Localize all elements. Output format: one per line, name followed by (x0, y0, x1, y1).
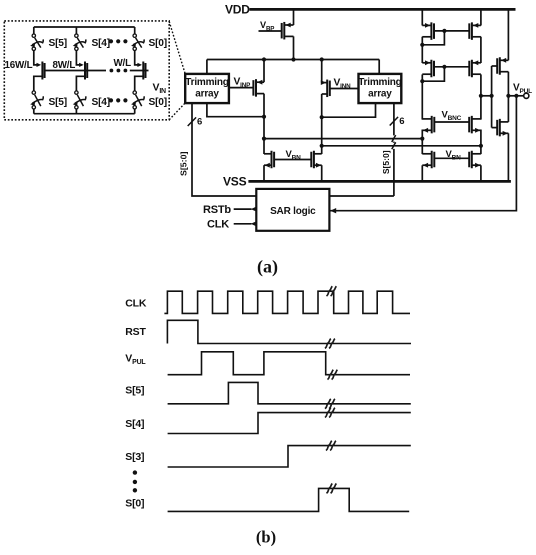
wire inset drain lead branch W/L (135, 76, 144, 90)
transistor inset branch W/L (143, 62, 145, 80)
waveform CLK (164, 286, 410, 313)
transistor mirror1 left (PMOS) (422, 22, 434, 39)
svg-text:S[5]: S[5] (49, 38, 67, 49)
arrow feedback into SAR (330, 208, 336, 213)
svg-text:VBN: VBN (446, 149, 462, 162)
svg-text:SAR logic: SAR logic (270, 206, 316, 217)
node V_INN drain to wire2 (320, 144, 324, 148)
transistor mirror1 right (PMOS) (469, 22, 481, 39)
wire inset drain lead branch 8W/L (76, 76, 85, 90)
svg-text:S[0]: S[0] (149, 97, 167, 108)
inset callout dashed line top (169, 22, 185, 74)
node tail-VINN junction (320, 57, 324, 61)
node wire2 right junction (479, 144, 483, 148)
block right Trimming array (358, 74, 401, 103)
svg-text:array: array (195, 89, 219, 100)
transistor V_BN right-pair M1 (NMOS) (422, 151, 434, 169)
svg-text:6: 6 (399, 116, 404, 127)
svg-text:VDD: VDD (225, 3, 250, 17)
svg-text:VIN: VIN (153, 82, 167, 96)
waveform S[3] (168, 441, 411, 467)
wire V_PUL feedback to SAR (331, 96, 517, 211)
wire V_INP drain column (263, 94, 265, 154)
transistor V_BP (PMOS) (282, 22, 294, 40)
svg-text:VPUL: VPUL (125, 353, 146, 367)
wire left trimming top to tail rail (206, 60, 208, 74)
block SAR logic (256, 189, 329, 231)
dots gate rail continuation (110, 69, 128, 73)
transistor inset branch 8W/L (85, 62, 87, 80)
transistor V_BNC right (NMOS) (469, 116, 481, 134)
transistor V_BN right-pair M2 (NMOS) (469, 151, 481, 169)
svg-text:RSTb: RSTb (203, 204, 231, 216)
wire V_INP source to tail (263, 60, 265, 83)
node tail-VINP junction (262, 57, 266, 61)
transistor mirror2 right (PMOS) (469, 60, 481, 78)
wire inset bottom feed branch 16W/L (33, 109, 35, 114)
wire V_BP drain to tail rail (293, 36, 295, 59)
hop right bus over wire1 (392, 135, 396, 142)
wire inset source lead branch 16W/L (34, 51, 39, 65)
transistor output buffer PMOS (497, 57, 508, 75)
arrow source lead branch 16W/L (37, 63, 42, 67)
svg-text:RST: RST (125, 326, 146, 338)
wire column A VBN source to VSS (421, 165, 423, 181)
wire mirror2 diode tie (422, 67, 444, 81)
wire inset top feed branch W/L (134, 27, 136, 34)
wire column A mirror2 to VBNC drain (421, 74, 423, 119)
wire1 V_INP drain to cascode left column (264, 138, 422, 140)
wire inset source lead branch 8W/L (76, 51, 81, 65)
slash left bus width-6 (188, 117, 196, 126)
wire column B mirror1-mirror2 (480, 37, 482, 63)
switch top branch W/L (131, 34, 144, 51)
svg-text:S[5]: S[5] (49, 97, 67, 108)
svg-text:8W/L: 8W/L (53, 60, 76, 71)
node tail-VBP junction (291, 57, 295, 61)
wire CLK input (234, 223, 252, 225)
wire output to buffer gate bus (481, 95, 492, 97)
wire inset drain lead branch 16W/L (34, 76, 43, 90)
wire buffer gate bus (491, 66, 493, 128)
wire column A top (VDD to mirror1) (421, 9, 423, 25)
power rail VSS (248, 180, 511, 183)
arrow RSTb into SAR (251, 206, 257, 211)
wire V_BN left-pair gates (274, 159, 311, 161)
switch bottom branch W/L (131, 91, 144, 109)
transistor V_INN (PMOS input) (321, 80, 330, 98)
transistor inset branch 16W/L (42, 62, 44, 80)
svg-text:array: array (368, 89, 392, 100)
wire right trimming top to tail rail (378, 60, 380, 74)
node mirror2 diode junction (420, 79, 424, 83)
node buffer gate bus junction (490, 94, 494, 98)
wire V_BP gate (259, 30, 283, 32)
wire V_INN gate (331, 88, 359, 90)
node left trim drain junction (262, 115, 266, 119)
transistor V_BN left-pair M2 (NMOS) (311, 151, 321, 169)
node mirror1 gate junction (442, 29, 446, 33)
wire column A mirror1-mirror2 (421, 37, 423, 63)
wire buffer NMOS source to VSS (507, 133, 509, 181)
node mirror1 diode junction (420, 43, 424, 47)
svg-text:S[5:0]: S[5:0] (180, 151, 189, 176)
wire inset common gate rail left (45, 70, 106, 72)
wire buffer PMOS source to VDD (507, 9, 509, 60)
svg-text:6: 6 (197, 117, 202, 128)
inset callout dashed line bottom (169, 103, 185, 120)
bus left S[5:0] (192, 103, 256, 196)
transistor output buffer NMOS (497, 119, 508, 137)
inset bottom bus wire (34, 113, 135, 115)
transistor V_INP (PMOS input) (253, 79, 264, 97)
switch top branch 16W/L (30, 34, 43, 51)
wire V_INP gate (229, 87, 254, 89)
node first-stage output on column B (479, 94, 483, 98)
wire V_BN right-pair gates (434, 157, 469, 159)
svg-text:CLK: CLK (125, 298, 147, 310)
wire buffer NMOS gate lead (492, 127, 497, 129)
svg-text:S[5:0]: S[5:0] (382, 150, 391, 174)
svg-text:VSS: VSS (223, 175, 247, 189)
wire V_PUL output (508, 95, 524, 97)
wire inset top feed branch 16W/L (33, 27, 35, 34)
svg-text:S[4]: S[4] (92, 38, 110, 49)
wire V_INN source to tail (321, 60, 323, 83)
dots waveform ellipsis (133, 470, 137, 492)
block left Trimming array (185, 74, 229, 103)
svg-text:S[3]: S[3] (125, 451, 144, 463)
wire2 V_INN drain to cascode right column (322, 145, 481, 147)
svg-text:W/L: W/L (114, 58, 132, 69)
wire inset bottom feed branch W/L (134, 109, 136, 114)
svg-text:S[4]: S[4] (125, 418, 144, 430)
arrow source lead branch 8W/L (79, 63, 84, 67)
waveform S[4] (168, 408, 411, 434)
wire buffer PMOS gate lead (492, 65, 497, 67)
svg-text:Trimming: Trimming (185, 77, 228, 88)
switch bottom branch 16W/L (30, 91, 43, 109)
wire RSTb input (234, 208, 252, 210)
svg-text:S[5]: S[5] (125, 384, 144, 396)
wire column B VBNC source to VBN drain (480, 130, 482, 155)
node mirror2 gate junction (442, 65, 446, 69)
wire left trimming bottom to V_INP drain (207, 103, 264, 117)
inset dashed box (4, 21, 169, 120)
power rail VDD (250, 8, 516, 11)
wire column B top (VDD to mirror1) (480, 9, 482, 25)
wire V_BNC gates (434, 121, 469, 123)
transistor V_BNC left (NMOS) (422, 116, 434, 134)
svg-text:CLK: CLK (207, 219, 229, 231)
wire inset common gate rail right (130, 70, 149, 72)
wire column A VBNC source to VBN drain (421, 130, 423, 155)
wire mirror1 gates (434, 30, 469, 32)
svg-text:S[0]: S[0] (125, 497, 144, 509)
switch bottom branch 8W/L (73, 91, 86, 109)
hop right bus over wire2 (392, 142, 396, 149)
node wire1 right junction (420, 137, 424, 141)
wire mirror2 gates (434, 66, 469, 68)
svg-text:(b): (b) (256, 528, 276, 547)
svg-text:16W/L: 16W/L (5, 60, 33, 71)
node right trim drain junction (320, 115, 324, 119)
svg-text:VPUL: VPUL (513, 83, 532, 96)
inset top bus wire (34, 26, 135, 28)
terminal V_PUL (open circle) (524, 93, 529, 98)
transistor V_BN left-pair M1 (NMOS) (264, 151, 274, 169)
node buffer drain output junction (506, 94, 510, 98)
wire column B mirror2 to VBNC drain (480, 74, 482, 119)
dots top switch row (109, 39, 128, 43)
bus right S[5:0] (329, 103, 394, 196)
node V_INP drain to wire1 (262, 137, 266, 141)
switch top branch 8W/L (73, 34, 86, 51)
svg-text:S[4]: S[4] (92, 97, 110, 108)
dots bottom switch row (109, 98, 128, 102)
wire left-pair M2 source to VSS (321, 165, 323, 181)
wire column B VBN source to VSS (480, 165, 482, 181)
wire inset source lead branch W/L (135, 51, 140, 65)
svg-text:S[0]: S[0] (149, 38, 167, 49)
waveform RST (167, 320, 411, 348)
waveform S[5] (168, 382, 411, 408)
svg-text:VBNC: VBNC (442, 110, 462, 123)
waveform S[0] (168, 484, 410, 512)
wire V_INN drain column (321, 94, 323, 154)
svg-text:Trimming: Trimming (358, 77, 401, 88)
slash right bus width-6 (390, 117, 398, 126)
waveform V_PUL (168, 352, 410, 380)
wire tail rail (common source node) (207, 59, 379, 61)
node V_PUL feedback junction (514, 94, 518, 98)
wire inset bottom feed branch 8W/L (75, 109, 77, 114)
wire right trimming bottom to V_INN drain (322, 103, 376, 117)
wire left-pair M1 source to VSS (263, 165, 265, 181)
wire buffer drain column (507, 72, 509, 122)
arrow CLK into SAR (251, 221, 257, 226)
arrow source lead branch W/L (137, 63, 142, 67)
transistor mirror2 left (PMOS) (422, 60, 434, 78)
wire V_BP source to VDD (293, 9, 295, 25)
wire inset top feed branch 8W/L (75, 27, 77, 34)
svg-text:(a): (a) (257, 257, 278, 278)
wire mirror1 diode tie (422, 31, 444, 45)
